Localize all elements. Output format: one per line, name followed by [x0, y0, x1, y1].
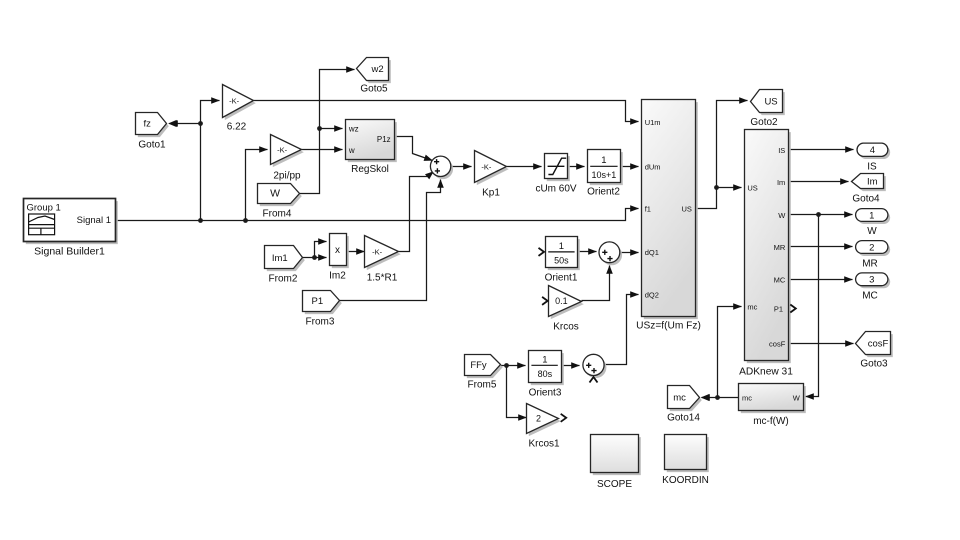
- outport 2: [856, 241, 891, 256]
- svg-text:P1: P1: [774, 305, 783, 314]
- svg-text:80s: 80s: [538, 369, 553, 379]
- From5 tag FFy: [465, 355, 503, 379]
- junction W riser to RegSkol wz branch: [317, 126, 322, 131]
- svg-text:W: W: [270, 188, 280, 200]
- wire branch to Goto1 tag fz: [170, 123, 201, 125]
- svg-text:Goto3: Goto3: [860, 359, 888, 370]
- wire ADKnew IS output to outport 4: [789, 149, 854, 151]
- svg-text:W: W: [778, 211, 786, 220]
- wire From3 P1 output to sum1 bottom: [340, 180, 441, 301]
- svg-text:Goto5: Goto5: [360, 84, 388, 95]
- wire FFy branch to gain Krcos1 input: [507, 366, 527, 418]
- wire gain 2pi/pp output to RegSkol w input: [302, 149, 343, 151]
- wire ADKnew Im output to Goto4 tag: [789, 181, 849, 183]
- gain 2pi/pp label: [273, 171, 301, 182]
- svg-text:US: US: [747, 184, 757, 193]
- junction signal wire to fz/6.22 riser: [198, 218, 203, 223]
- svg-text:2: 2: [536, 413, 541, 423]
- svg-text:f1: f1: [645, 204, 651, 213]
- wire gain 6.22 output to USz U1m input: [254, 101, 639, 122]
- svg-text:2: 2: [869, 242, 874, 253]
- svg-text:1: 1: [869, 210, 874, 221]
- outport 4 label: [867, 162, 877, 173]
- sum block sum1: [430, 156, 453, 179]
- gain Krcos label: [553, 322, 579, 333]
- gain Krcos: [549, 286, 584, 320]
- svg-text:1: 1: [559, 241, 564, 252]
- wire mc-f(W) mc output to Goto14 tag: [702, 397, 739, 399]
- svg-text:MR: MR: [774, 243, 786, 252]
- svg-text:U1m: U1m: [645, 118, 661, 127]
- svg-text:Goto2: Goto2: [750, 117, 778, 128]
- transfer fcn Orient3: [529, 351, 564, 386]
- svg-text:-K-: -K-: [229, 97, 240, 106]
- svg-text:w: w: [348, 146, 355, 155]
- svg-text:From2: From2: [269, 274, 298, 285]
- svg-text:w2: w2: [371, 64, 384, 75]
- RegSkol subsystem block: [346, 120, 397, 163]
- Goto5 tag w2: [357, 58, 391, 84]
- saturation block cUm 60V label: [535, 184, 576, 195]
- unconnected output chevron Krcos1: [561, 414, 567, 422]
- wire USz US output riser: [696, 101, 748, 209]
- svg-text:KOORDIN: KOORDIN: [662, 475, 709, 486]
- outport 4: [857, 143, 890, 159]
- svg-text:Group 1: Group 1: [27, 203, 61, 214]
- svg-text:Im: Im: [867, 177, 878, 188]
- wire gain 1.5*R1 output to sum1: [399, 172, 434, 252]
- Goto5 tag w2 label: [360, 84, 388, 95]
- Goto3 tag cosF: [856, 332, 893, 358]
- transfer fcn Orient1: [546, 237, 580, 271]
- Goto1 tag fz label: [138, 140, 166, 151]
- Goto3 tag cosF label: [860, 359, 888, 370]
- svg-text:0.1: 0.1: [555, 296, 568, 306]
- unconnected input chevron Orient1: [539, 248, 545, 256]
- unconnected output chevron ADKnew P1: [790, 305, 796, 313]
- svg-text:Im1: Im1: [272, 253, 288, 264]
- Goto2 tag US label: [750, 117, 778, 128]
- wire Im2 output to gain 1.5*R1 input: [347, 251, 365, 253]
- svg-text:50s: 50s: [554, 256, 569, 266]
- wire sum1 output to gain Kp1 input: [451, 166, 472, 168]
- svg-text:cosF: cosF: [769, 339, 786, 348]
- gain Kp1: [475, 151, 509, 186]
- wire gain Kp1 output to saturation cUm 60V: [507, 166, 542, 168]
- KOORDIN subsystem block label: [662, 475, 709, 486]
- wire Orient2 output to USz dUm input: [621, 166, 639, 168]
- From3 tag P1 label: [306, 317, 335, 328]
- transfer fcn Orient3 label: [529, 388, 562, 399]
- svg-text:mc: mc: [673, 392, 686, 403]
- svg-text:1: 1: [542, 354, 547, 365]
- svg-text:dUm: dUm: [645, 162, 661, 171]
- svg-text:Signal Builder1: Signal Builder1: [34, 246, 105, 258]
- wire saturation output to Orient2 input: [568, 166, 585, 168]
- svg-text:dQ1: dQ1: [645, 248, 659, 257]
- svg-text:US: US: [764, 97, 777, 108]
- wire riser to gain 2pi/pp input: [246, 150, 268, 221]
- svg-text:From4: From4: [263, 209, 292, 220]
- svg-text:MR: MR: [862, 259, 878, 270]
- wire branch to RegSkol wz input: [320, 128, 343, 130]
- svg-text:W: W: [867, 226, 877, 237]
- svg-text:Im2: Im2: [329, 271, 346, 282]
- svg-text:-K-: -K-: [277, 146, 288, 155]
- svg-text:MC: MC: [862, 291, 878, 302]
- wire ADKnew MC output to outport 3: [789, 279, 853, 281]
- svg-text:cUm 60V: cUm 60V: [535, 184, 576, 195]
- wire W branch down to mc-f(W) W input: [806, 215, 819, 397]
- From3 tag P1: [303, 291, 342, 315]
- wire Orient3 output to sum2 input: [562, 365, 580, 367]
- svg-text:x: x: [335, 245, 340, 256]
- wire riser to gain 6.22 input: [201, 101, 220, 221]
- USz subsystem block: [642, 100, 698, 320]
- svg-text:dQ2: dQ2: [645, 290, 659, 299]
- svg-text:Signal 1: Signal 1: [77, 215, 111, 226]
- wire RegSkol P1z output to sum1: [395, 137, 433, 161]
- gain 6.22 label: [227, 122, 247, 133]
- wire Orient1 output to sum3 input: [578, 251, 597, 253]
- svg-text:W: W: [793, 393, 801, 402]
- gain Krcos1: [527, 404, 561, 437]
- wire From5 FFy output to Orient3 input: [501, 365, 526, 367]
- junction Im1 wire split: [312, 255, 317, 260]
- USz subsystem block label: [636, 321, 701, 332]
- outport 1 label: [867, 226, 877, 237]
- outport 2 label: [862, 259, 878, 270]
- From2 tag Im1 label: [269, 274, 298, 285]
- wire mc riser to ADKnew mc input: [718, 307, 742, 398]
- svg-text:SCOPE: SCOPE: [597, 479, 632, 490]
- junction US riser to ADKnew branch: [714, 185, 719, 190]
- wire ADKnew MR output to outport 2: [789, 246, 853, 248]
- mc-f(W) subsystem block label: [753, 416, 789, 427]
- svg-text:fz: fz: [144, 119, 152, 130]
- svg-text:3: 3: [869, 275, 874, 286]
- svg-text:From3: From3: [306, 317, 335, 328]
- svg-text:Orient1: Orient1: [545, 273, 578, 284]
- gain 1.5*R1: [365, 236, 401, 271]
- unconnected input chevron sum2 bottom: [590, 377, 598, 383]
- svg-text:1: 1: [601, 155, 606, 166]
- svg-text:6.22: 6.22: [227, 122, 247, 133]
- Goto14 tag mc label: [667, 413, 700, 424]
- mc-f(W) subsystem block: [739, 384, 806, 414]
- sum block sum3: [599, 242, 622, 265]
- svg-text:USz=f(Um Fz): USz=f(Um Fz): [636, 321, 701, 332]
- wire sum2 output to USz dQ2 input: [605, 295, 639, 365]
- outport 3 label: [862, 291, 878, 302]
- wire ADKnew cosF output to Goto3 tag: [789, 343, 854, 345]
- arrowhead into Goto14 mc: [701, 394, 710, 401]
- svg-text:wz: wz: [348, 125, 359, 134]
- transfer fcn Orient2: [588, 150, 623, 186]
- junction signal wire to 2pi/pp riser: [243, 218, 248, 223]
- svg-text:FFy: FFy: [470, 360, 487, 371]
- svg-text:IS: IS: [867, 162, 877, 173]
- svg-text:Goto1: Goto1: [138, 140, 166, 151]
- saturation block cUm 60V: [545, 154, 570, 182]
- outport 1: [856, 209, 891, 224]
- product block Im2: [330, 234, 349, 269]
- svg-text:Goto14: Goto14: [667, 413, 700, 424]
- Goto4 tag Im label: [852, 194, 880, 205]
- gain 2pi/pp: [271, 135, 304, 168]
- junction W output to mc-f(W) branch: [816, 212, 821, 217]
- unconnected input chevron Krcos: [542, 297, 548, 305]
- Signal Builder1 block: [24, 199, 118, 245]
- From2 tag Im1: [265, 246, 305, 272]
- svg-text:2pi/pp: 2pi/pp: [273, 171, 301, 182]
- junction FFy wire split: [504, 363, 509, 368]
- svg-text:ADKnew 31: ADKnew 31: [739, 367, 793, 378]
- svg-text:Kp1: Kp1: [482, 188, 500, 199]
- wire ADKnew W output to outport 1: [789, 214, 853, 216]
- transfer fcn Orient1 label: [545, 273, 578, 284]
- SCOPE subsystem block: [591, 435, 641, 476]
- arrowhead into Goto1 fz: [168, 120, 177, 127]
- transfer fcn Orient2 label: [587, 187, 620, 198]
- gain Kp1 label: [482, 188, 500, 199]
- ADKnew subsystem block: [745, 130, 791, 364]
- svg-text:-K-: -K-: [481, 162, 492, 171]
- svg-text:mc: mc: [742, 393, 752, 402]
- junction riser to Goto1 branch: [198, 121, 203, 126]
- svg-text:From5: From5: [468, 380, 497, 391]
- gain 1.5*R1 label: [367, 273, 398, 284]
- svg-text:Krcos: Krcos: [553, 322, 579, 333]
- svg-text:Krcos1: Krcos1: [528, 439, 560, 450]
- svg-text:mc: mc: [747, 302, 757, 311]
- svg-text:IS: IS: [778, 146, 785, 155]
- ADKnew subsystem block label: [739, 367, 793, 378]
- From5 tag FFy label: [468, 380, 497, 391]
- SCOPE subsystem block label: [597, 479, 632, 490]
- gain 6.22: [223, 85, 256, 121]
- svg-text:P1: P1: [311, 296, 323, 307]
- svg-text:1.5*R1: 1.5*R1: [367, 273, 398, 284]
- Goto2 tag US: [751, 90, 785, 116]
- svg-text:RegSkol: RegSkol: [351, 164, 389, 175]
- wire sum3 output to USz dQ1 input: [620, 252, 639, 254]
- svg-text:Im: Im: [777, 178, 785, 187]
- Goto14 tag mc: [668, 386, 702, 412]
- outport 3: [856, 273, 891, 288]
- svg-text:MC: MC: [774, 275, 786, 284]
- wire branch to ADKnew US input: [717, 187, 742, 189]
- svg-text:P1z: P1z: [377, 135, 391, 144]
- svg-text:Goto4: Goto4: [852, 194, 880, 205]
- svg-text:cosF: cosF: [868, 338, 889, 349]
- svg-text:Orient3: Orient3: [529, 388, 562, 399]
- svg-text:-K-: -K-: [372, 247, 383, 256]
- wire gain Krcos output to sum3 bottom: [582, 266, 610, 301]
- Goto4 tag Im: [852, 174, 886, 192]
- wire Signal Builder1 output to f1 riser: [116, 209, 639, 221]
- KOORDIN subsystem block: [665, 435, 709, 473]
- Goto1 tag fz: [136, 113, 169, 138]
- From4 tag W label: [263, 209, 292, 220]
- svg-text:Orient2: Orient2: [587, 187, 620, 198]
- svg-text:mc-f(W): mc-f(W): [753, 416, 789, 427]
- sum block sum2: [583, 354, 607, 378]
- svg-text:10s+1: 10s+1: [592, 170, 617, 180]
- wire Im1 branch to Im2 upper input: [315, 242, 327, 258]
- svg-text:US: US: [681, 205, 691, 214]
- svg-text:4: 4: [870, 145, 875, 156]
- RegSkol subsystem block label: [351, 164, 389, 175]
- wire From2 Im1 output to Im2 lower input: [303, 257, 327, 259]
- junction mc wire to ADKnew riser: [715, 395, 720, 400]
- Signal Builder1 block label: [34, 246, 105, 258]
- wire From4 W riser to Goto5 w2: [300, 70, 355, 194]
- From4 tag W: [258, 184, 302, 207]
- gain Krcos1 label: [528, 439, 560, 450]
- product block Im2 label: [329, 271, 346, 282]
